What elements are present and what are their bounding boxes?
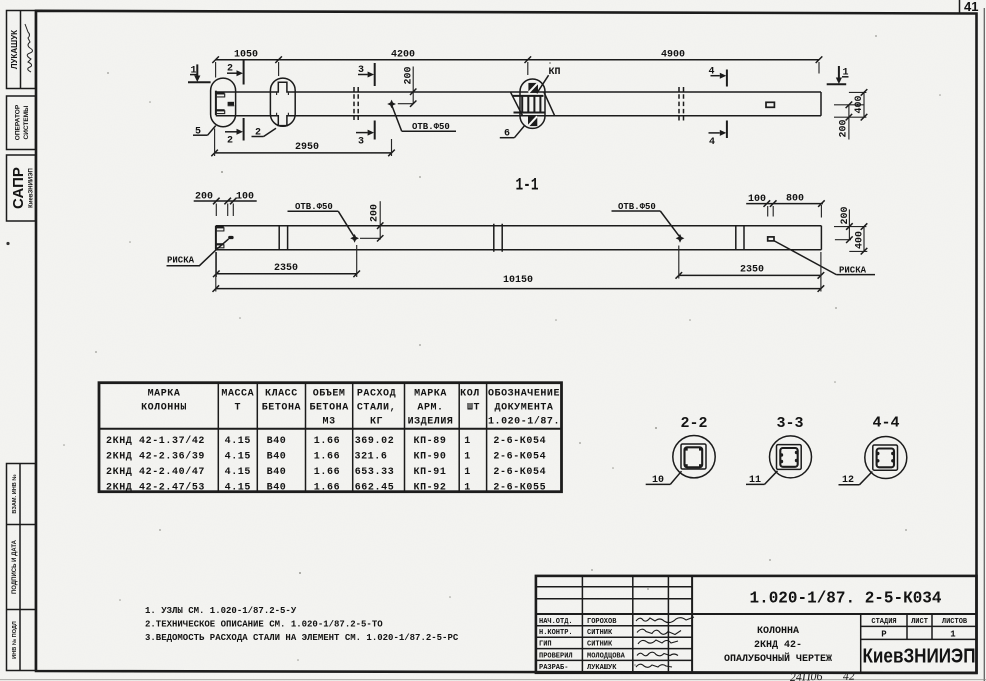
svg-text:КП-89: КП-89	[413, 436, 446, 447]
svg-text:2КНД 42-: 2КНД 42-	[754, 640, 802, 651]
otv f50 label right 1-1	[612, 202, 680, 236]
svg-text:4.15: 4.15	[225, 467, 251, 478]
svg-text:2КНД 42-2.36/39: 2КНД 42-2.36/39	[106, 450, 205, 462]
main vertical divider	[691, 576, 693, 673]
svg-text:1050: 1050	[234, 50, 258, 61]
svg-text:100: 100	[236, 191, 254, 202]
dim 2350 right	[676, 246, 825, 279]
section marker 4 bottom	[709, 121, 727, 149]
svg-text:1.66: 1.66	[314, 467, 340, 478]
svg-text:321.6: 321.6	[354, 451, 387, 462]
svg-text:400: 400	[855, 231, 866, 249]
node 2 leader and label	[252, 128, 277, 139]
left strip: inventory block	[7, 464, 36, 671]
TITLEBLOCK	[536, 576, 977, 681]
stage/sheet grid	[860, 614, 862, 673]
svg-text:2: 2	[255, 128, 261, 139]
svg-text:3.ВЕДОМОСТЬ РАСХОДА СТАЛИ НА Э: 3.ВЕДОМОСТЬ РАСХОДА СТАЛИ НА ЭЛЕМЕНТ СМ.…	[145, 633, 459, 643]
svg-text:В40: В40	[267, 436, 287, 447]
svg-text:2-6-К054: 2-6-К054	[493, 436, 546, 447]
svg-text:М3: М3	[323, 416, 336, 427]
svg-text:БЕТОНА: БЕТОНА	[309, 402, 348, 413]
svg-text:ОПАЛУБОЧНЫЙ ЧЕРТЕЖ: ОПАЛУБОЧНЫЙ ЧЕРТЕЖ	[724, 651, 832, 665]
svg-text:400: 400	[854, 95, 865, 113]
top dimension line 1050/4200/4900	[212, 50, 822, 78]
left strip: designer block (rotated)	[7, 11, 36, 89]
right end vertical dims 400/200 top view	[834, 89, 867, 139]
svg-text:2КНД 42-2.40/47: 2КНД 42-2.40/47	[106, 466, 205, 478]
table header text	[141, 388, 560, 427]
dim 2350 left	[213, 245, 360, 277]
section marker 3 bottom	[356, 121, 375, 148]
svg-text:42: 42	[843, 669, 855, 681]
otv f50 label top view	[392, 106, 456, 132]
svg-text:НАЧ.ОТД.: НАЧ.ОТД.	[539, 618, 573, 626]
svg-text:КП-92: КП-92	[413, 482, 446, 493]
svg-text:2КНД 42-1.37/42: 2КНД 42-1.37/42	[106, 435, 205, 447]
column body top view	[216, 91, 821, 93]
top-right dims 100/800 of 1-1	[746, 194, 825, 218]
break mark left	[354, 87, 358, 120]
svg-text:КиевЗНИИЭП: КиевЗНИИЭП	[29, 168, 35, 208]
break mark right	[679, 87, 684, 121]
svg-text:2350: 2350	[740, 264, 764, 275]
SECTIONS	[646, 415, 907, 487]
svg-text:КОЛОННЫ: КОЛОННЫ	[141, 402, 187, 413]
punch hole dot	[6, 242, 9, 245]
section marker 2 top	[227, 61, 244, 85]
NOTES	[145, 606, 459, 643]
svg-text:КиевЗНИИЭП: КиевЗНИИЭП	[863, 646, 976, 668]
section 2-2	[646, 415, 716, 486]
svg-text:АРМ.: АРМ.	[417, 402, 443, 413]
materials table frame	[99, 383, 562, 492]
node 6 leader and label	[500, 125, 525, 139]
svg-text:КОЛОННА: КОЛОННА	[757, 626, 799, 637]
svg-text:МОЛОДЦОВА: МОЛОДЦОВА	[587, 652, 626, 660]
node 5 leader and label	[193, 126, 216, 138]
svg-text:Р: Р	[881, 629, 887, 639]
section 3-3	[746, 415, 812, 486]
signature squiggles	[636, 617, 694, 667]
svg-text:1.66: 1.66	[314, 436, 340, 447]
svg-text:41: 41	[964, 0, 978, 14]
right end vertical dims 200/400 of 1-1	[834, 206, 867, 254]
section 4-4	[839, 415, 907, 487]
left end detail 1-1	[216, 226, 234, 250]
leader 12	[860, 472, 873, 485]
svg-text:ОПЕРАТОР: ОПЕРАТОР	[15, 104, 22, 140]
title block frame	[536, 576, 977, 673]
signature squiggle rotated	[25, 24, 33, 72]
svg-text:РИСКА: РИСКА	[167, 256, 195, 266]
section marker 3 top	[358, 63, 375, 86]
svg-text:В40: В40	[267, 467, 287, 478]
svg-text:24П06: 24П06	[790, 669, 823, 681]
node 2 oval (cross slot)	[270, 78, 295, 126]
riska plate mark right 1-1	[768, 237, 774, 241]
svg-text:2-2: 2-2	[680, 415, 707, 432]
column body section 1-1	[216, 225, 822, 227]
vertical dim 200 at hole 1-1	[360, 201, 383, 241]
svg-text:10150: 10150	[503, 275, 533, 286]
svg-text:4.15: 4.15	[225, 436, 251, 447]
svg-text:ИНВ № ПОДЛ: ИНВ № ПОДЛ	[12, 621, 18, 659]
svg-text:1.66: 1.66	[314, 451, 340, 462]
svg-text:ЛУКАШУК: ЛУКАШУК	[10, 30, 19, 69]
full width separator under doc number	[536, 613, 977, 615]
svg-text:4200: 4200	[391, 50, 415, 61]
svg-text:ДОКУМЕНТА: ДОКУМЕНТА	[495, 402, 554, 413]
svg-text:200: 200	[839, 119, 850, 137]
TOPVIEW	[188, 50, 867, 157]
svg-text:1. УЗЛЫ СМ. 1.020-1/87.2-5-У: 1. УЗЛЫ СМ. 1.020-1/87.2-5-У	[145, 606, 297, 616]
svg-text:1.020-1/87. 2-5-К034: 1.020-1/87. 2-5-К034	[750, 590, 942, 609]
otv f50 label left 1-1	[288, 202, 354, 236]
KP node 6: embedded part	[511, 83, 555, 126]
cross slot detail inside node 2	[276, 82, 288, 125]
svg-text:ВЗАМ. ИНВ №: ВЗАМ. ИНВ №	[12, 474, 18, 513]
svg-text:1-1: 1-1	[516, 176, 539, 196]
svg-text:653.33: 653.33	[355, 467, 395, 478]
column left end detail (node 5)	[216, 91, 234, 116]
svg-text:ЛУКАШУК: ЛУКАШУК	[587, 664, 617, 672]
table data rows	[106, 435, 205, 494]
svg-text:200: 200	[370, 204, 381, 222]
riska plate mark top view	[766, 102, 774, 107]
svg-text:2: 2	[227, 136, 233, 147]
svg-text:10: 10	[652, 475, 664, 486]
KP label and leader	[537, 67, 561, 93]
svg-text:ОТВ.Ф50: ОТВ.Ф50	[412, 122, 450, 132]
svg-text:ЛИСТ: ЛИСТ	[911, 618, 928, 626]
svg-text:СИСТЕМЫ: СИСТЕМЫ	[23, 106, 30, 140]
vertical dim 200 at hole (top view)	[398, 66, 417, 106]
svg-text:1.020-1/87.: 1.020-1/87.	[488, 415, 560, 427]
dim 10150 overall	[213, 252, 825, 292]
svg-text:РАСХОД: РАСХОД	[357, 388, 396, 399]
svg-text:11: 11	[749, 475, 761, 486]
svg-text:2КНД 42-2.47/53: 2КНД 42-2.47/53	[106, 481, 205, 493]
svg-text:КОЛ: КОЛ	[460, 388, 480, 399]
svg-text:КП: КП	[549, 67, 561, 78]
hole otv f50 top view	[387, 100, 396, 109]
bottom dim 2950	[211, 129, 394, 157]
svg-text:1: 1	[464, 482, 471, 493]
svg-text:2350: 2350	[274, 263, 298, 274]
slot lines pair 3	[736, 226, 744, 250]
svg-text:1: 1	[464, 467, 471, 478]
svg-text:4: 4	[709, 67, 715, 78]
svg-text:КЛАСС: КЛАСС	[265, 388, 298, 399]
svg-text:ОБОЗНАЧЕНИЕ: ОБОЗНАЧЕНИЕ	[488, 388, 560, 399]
svg-text:Н.КОНТР.: Н.КОНТР.	[539, 629, 573, 637]
svg-text:5: 5	[195, 126, 201, 137]
svg-text:100: 100	[748, 194, 766, 205]
svg-text:6: 6	[504, 129, 510, 140]
sheet number box line	[959, 0, 961, 13]
slot lines pair 1	[279, 226, 287, 250]
slot lines pair 2 (center)	[494, 224, 502, 252]
svg-text:РИСКА: РИСКА	[839, 265, 867, 275]
svg-text:1.66: 1.66	[314, 482, 340, 493]
section marker 2 bottom	[225, 118, 244, 147]
svg-text:4.15: 4.15	[225, 482, 251, 493]
hole otv f50 left 1-1	[350, 234, 359, 243]
svg-text:3-3: 3-3	[776, 415, 803, 432]
left section verticals	[582, 576, 668, 673]
left strip: CAD block	[7, 155, 36, 221]
svg-text:В40: В40	[267, 482, 287, 493]
signature row lines	[536, 626, 692, 661]
column description	[724, 626, 832, 665]
left strip: operator block	[7, 96, 36, 150]
left section horizontals: empty revision rows	[536, 587, 692, 599]
svg-text:1: 1	[464, 436, 471, 447]
svg-text:4900: 4900	[661, 50, 685, 61]
svg-text:4.15: 4.15	[225, 451, 251, 462]
svg-text:ГОРОХОВ: ГОРОХОВ	[587, 618, 617, 626]
svg-text:ОТВ.Ф50: ОТВ.Ф50	[295, 202, 333, 212]
svg-text:МАССА: МАССА	[221, 388, 254, 399]
svg-text:1: 1	[950, 629, 956, 639]
svg-text:РАЗРАБ-: РАЗРАБ-	[539, 664, 568, 672]
riska label left 1-1	[167, 239, 229, 266]
svg-text:СИТНИК: СИТНИК	[587, 629, 613, 637]
svg-text:БЕТОНА: БЕТОНА	[262, 402, 301, 413]
section marker 1 left	[188, 64, 211, 82]
SECTIONVIEW	[167, 176, 876, 292]
TABLE	[99, 383, 562, 494]
svg-text:200: 200	[404, 66, 415, 84]
svg-text:1: 1	[464, 451, 471, 462]
svg-text:3: 3	[358, 65, 364, 76]
svg-text:800: 800	[786, 194, 804, 205]
node 5 oval	[211, 78, 236, 127]
svg-text:Т: Т	[235, 402, 242, 413]
svg-text:КП-91: КП-91	[413, 467, 446, 478]
svg-text:369.02: 369.02	[355, 436, 395, 447]
scan bottom edge	[0, 679, 986, 681]
leader 10	[670, 471, 681, 484]
svg-text:ПРОВЕРИЛ: ПРОВЕРИЛ	[539, 652, 573, 660]
svg-text:2: 2	[227, 64, 233, 75]
svg-text:200: 200	[195, 191, 213, 202]
svg-text:3: 3	[358, 137, 364, 148]
section marker 4 top	[709, 67, 727, 87]
role labels	[539, 618, 626, 672]
svg-text:200: 200	[840, 206, 851, 224]
svg-text:ОТВ.Ф50: ОТВ.Ф50	[618, 202, 656, 212]
top-left dims 200/100 of 1-1	[194, 191, 257, 216]
svg-text:ГИП: ГИП	[539, 641, 552, 649]
svg-text:ИЗДЕЛИЯ: ИЗДЕЛИЯ	[408, 416, 454, 427]
svg-text:СТАДИЯ: СТАДИЯ	[871, 618, 896, 626]
riska label right 1-1	[774, 241, 875, 276]
svg-text:САПР: САПР	[10, 167, 27, 209]
svg-text:КП-90: КП-90	[413, 451, 446, 462]
svg-text:СТАЛИ,: СТАЛИ,	[357, 402, 396, 413]
svg-text:2-6-К054: 2-6-К054	[493, 451, 546, 462]
hole otv f50 right 1-1	[676, 234, 685, 243]
svg-text:ШТ: ШТ	[467, 402, 480, 413]
svg-text:2950: 2950	[295, 142, 319, 153]
svg-text:662.45: 662.45	[355, 482, 395, 493]
svg-text:4: 4	[709, 137, 715, 148]
svg-text:КГ: КГ	[370, 416, 383, 427]
leader 11	[765, 471, 778, 485]
svg-text:2-6-К054: 2-6-К054	[493, 467, 546, 478]
scan right edge	[983, 8, 985, 681]
svg-text:4-4: 4-4	[872, 415, 899, 432]
svg-text:ОБЪЕМ: ОБЪЕМ	[313, 388, 346, 399]
section marker 1 right	[827, 66, 849, 84]
node 6 oval	[520, 79, 545, 128]
svg-text:ЛИСТОВ: ЛИСТОВ	[942, 618, 968, 626]
svg-text:12: 12	[842, 475, 854, 486]
svg-text:2-6-К055: 2-6-К055	[493, 482, 546, 493]
svg-text:МАРКА: МАРКА	[148, 388, 181, 399]
svg-text:МАРКА: МАРКА	[414, 388, 447, 399]
svg-text:СИТНИК: СИТНИК	[587, 641, 613, 649]
svg-text:ПОДПИСЬ И ДАТА: ПОДПИСЬ И ДАТА	[12, 539, 18, 594]
svg-text:2.ТЕХНИЧЕСКОЕ ОПИСАНИЕ СМ. 1.0: 2.ТЕХНИЧЕСКОЕ ОПИСАНИЕ СМ. 1.020-1/87.2-…	[145, 620, 383, 630]
svg-text:В40: В40	[267, 451, 287, 462]
